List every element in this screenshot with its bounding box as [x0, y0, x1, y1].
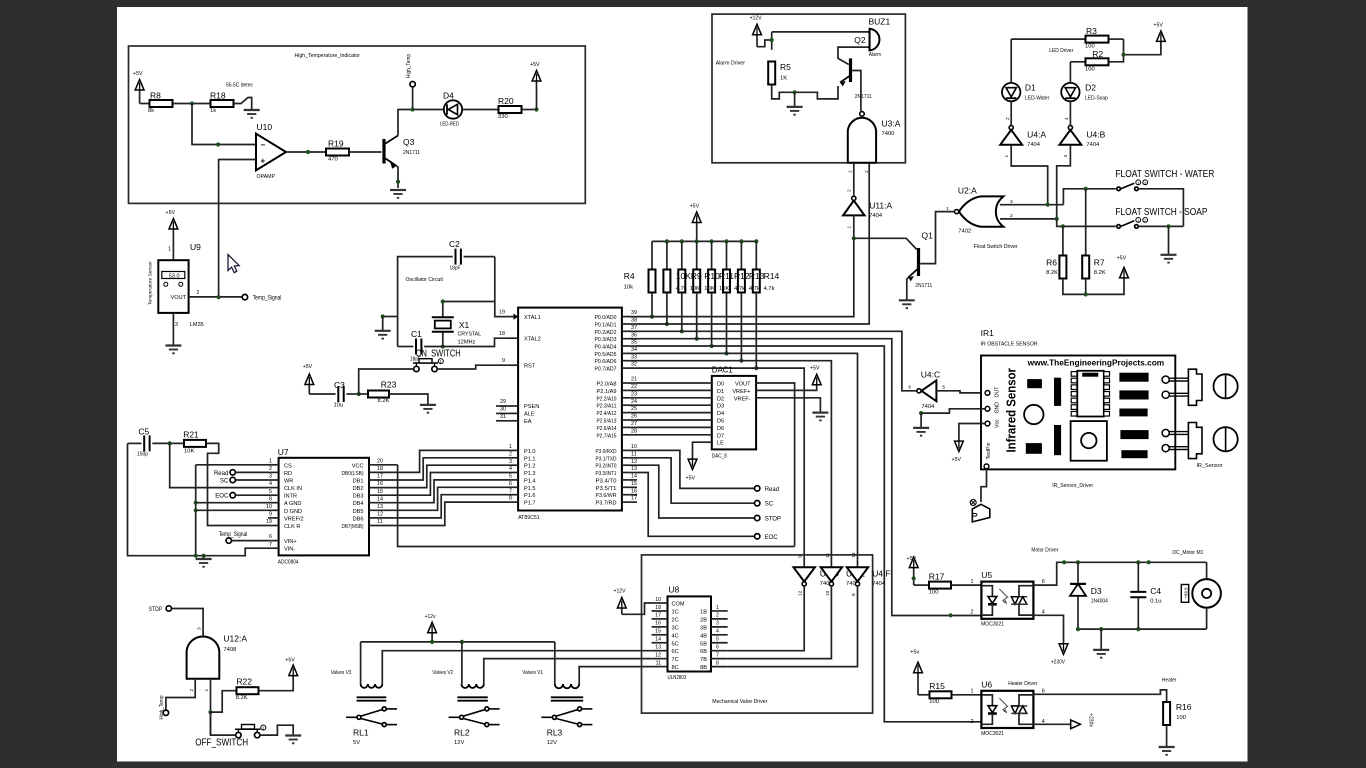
svg-text:R2: R2 — [1092, 49, 1103, 59]
svg-text:24: 24 — [631, 399, 637, 405]
svg-text:Vcc: Vcc — [995, 419, 1001, 428]
svg-text:12MHz: 12MHz — [458, 340, 476, 346]
transistor Q2 2N1711 — [849, 58, 852, 82]
wire — [346, 393, 358, 395]
wire P0.7 to U4:D input — [637, 368, 804, 567]
node soap-R6 — [1061, 224, 1065, 228]
svg-text:2N1711: 2N1711 — [855, 94, 872, 100]
svg-text:4: 4 — [269, 481, 272, 487]
pin 4 P1.3 — [508, 472, 518, 474]
pin 10 P3.0/RXD — [622, 449, 637, 451]
wire U3:A input 1 to U11:A output — [853, 163, 855, 196]
wire — [918, 694, 930, 696]
ground (Q3) — [390, 189, 406, 191]
svg-text:+12V: +12V — [750, 16, 762, 22]
svg-text:P0.6/AD6: P0.6/AD6 — [595, 359, 617, 365]
subcircuit box Mechanical Valve Driver — [642, 555, 873, 713]
pin 17 DB1 — [369, 479, 398, 481]
svg-text:16: 16 — [377, 481, 383, 487]
pin GND — [985, 406, 990, 411]
node bottom rail D3 — [1076, 627, 1080, 631]
pin 14 DB4 — [369, 502, 398, 504]
resistor R14 4.7k (pull-up column 7) — [754, 239, 758, 243]
svg-text:D5: D5 — [717, 419, 724, 425]
svg-text:2: 2 — [847, 189, 853, 192]
svg-text:8.2K: 8.2K — [378, 398, 390, 404]
svg-text:4.7k: 4.7k — [749, 286, 760, 292]
svg-text:−: − — [261, 141, 266, 150]
mouse cursor — [228, 255, 239, 273]
svg-text:VOUT: VOUT — [735, 382, 751, 388]
svg-text:RD: RD — [284, 471, 292, 477]
power +5V (R22) — [289, 665, 298, 676]
wire R16 to ground — [1166, 725, 1168, 747]
svg-text:7400: 7400 — [882, 131, 895, 137]
svg-text:1B: 1B — [700, 609, 707, 615]
svg-text:P0.5/AD5: P0.5/AD5 — [595, 352, 617, 358]
svg-text:8k: 8k — [148, 108, 154, 114]
svg-text:Mechanical Valve Driver: Mechanical Valve Driver — [712, 699, 767, 705]
node bottom rail C4 — [1136, 627, 1140, 631]
svg-text:0: 0 — [971, 512, 980, 517]
pin 2 2B — [711, 618, 728, 620]
svg-text:Read: Read — [214, 471, 228, 477]
pin 17 P3.7/RD — [622, 501, 637, 503]
svg-text:Valves V3: Valves V3 — [331, 670, 352, 676]
svg-text:Q3: Q3 — [403, 137, 415, 147]
power +5V (LE, arrow down) — [688, 459, 697, 470]
svg-text:P3.7/RD: P3.7/RD — [596, 501, 617, 507]
svg-text:P3.1/TXD: P3.1/TXD — [596, 456, 617, 462]
svg-text:15: 15 — [631, 481, 637, 487]
svg-text:+5V: +5V — [166, 210, 176, 216]
svg-text:P2.7/A15: P2.7/A15 — [597, 433, 617, 439]
resistor R12 4.7k (pull-up column 5) — [724, 239, 728, 243]
wire DAC1 VOUT down to U7 VCC rail — [756, 383, 795, 547]
svg-text:+5V: +5V — [1153, 23, 1163, 29]
svg-text:2C: 2C — [672, 617, 679, 623]
svg-text:U11:A: U11:A — [869, 201, 892, 211]
svg-text:37: 37 — [631, 325, 637, 331]
svg-text:Float Switch Driver: Float Switch Driver — [974, 244, 1018, 250]
wire P3.2 to STOP — [637, 465, 755, 518]
optocoupler U6 MOC3021 — [981, 691, 1033, 728]
svg-text:1: 1 — [848, 170, 854, 173]
svg-text:C1: C1 — [411, 329, 422, 339]
wire water rail left — [1063, 189, 1115, 205]
wire STOP to U12:A output — [172, 609, 204, 636]
svg-text:8: 8 — [269, 496, 272, 502]
svg-text:4: 4 — [1042, 609, 1045, 615]
wire R22 to +5V — [259, 676, 294, 691]
node valve rail V2 — [460, 640, 464, 644]
svg-text:P1.7: P1.7 — [524, 501, 536, 507]
svg-text:P2.5/A13: P2.5/A13 — [597, 419, 617, 425]
SMD strip 2 — [1055, 426, 1061, 455]
svg-text:4.7k: 4.7k — [734, 286, 745, 292]
resistor R9 10K (pull-up column 2) — [680, 239, 684, 243]
svg-text:RL2: RL2 — [454, 728, 470, 738]
resistor R2 100 — [1070, 61, 1085, 63]
wire +12V to R5 top — [757, 40, 772, 47]
svg-text:10: 10 — [825, 590, 831, 596]
power +5V (LED driver) — [1157, 31, 1166, 42]
svg-text:Oscillator Circuit: Oscillator Circuit — [406, 277, 444, 283]
node motor rail 2 — [1147, 560, 1151, 564]
svg-text:7404: 7404 — [869, 213, 883, 219]
wire U9 pin3 to ground — [172, 313, 174, 346]
svg-text:A GND: A GND — [284, 501, 301, 507]
pin 5 INTR — [268, 494, 279, 496]
wire U12:A input1 to OFF_SWITCH node — [210, 679, 212, 735]
wire U4:E output to U8 7B — [728, 586, 832, 659]
node reset RC — [357, 392, 361, 396]
node motor rail 1 — [1062, 560, 1066, 564]
pin 4 4B — [711, 634, 728, 636]
svg-text:1C: 1C — [672, 609, 679, 615]
node valve rail arrow — [430, 640, 434, 644]
wire P0.6 to U4:E input — [637, 361, 831, 568]
svg-text:DB5: DB5 — [353, 509, 364, 515]
svg-text:7B: 7B — [700, 657, 707, 663]
svg-text:OPAMP: OPAMP — [257, 174, 276, 180]
svg-text:+230v: +230v — [1088, 713, 1094, 727]
svg-text:1: 1 — [971, 689, 974, 695]
wire P2.1 to DAC1 D1 — [637, 389, 712, 391]
wire Vcc to +5V arrow down — [959, 424, 985, 442]
svg-text:P1.4: P1.4 — [524, 478, 536, 484]
svg-text:VIN-: VIN- — [284, 547, 295, 553]
optocoupler U5 MOC3021 — [981, 582, 1033, 619]
resistor R3 100 — [1011, 38, 1085, 40]
wire U4:A input to float-water net — [1011, 145, 1047, 205]
svg-text:X1: X1 — [459, 320, 470, 330]
wire water rail right — [1139, 189, 1184, 227]
resistor R20 — [499, 106, 522, 113]
pin 7 P1.6 — [508, 494, 518, 496]
svg-text:5B: 5B — [700, 641, 707, 647]
svg-text:R3: R3 — [1086, 26, 1097, 36]
svg-text:8.2K: 8.2K — [236, 695, 248, 701]
svg-text:22: 22 — [631, 384, 637, 390]
svg-text:+5V: +5V — [303, 364, 313, 370]
node R8-R18 — [190, 101, 194, 105]
svg-text:LM35: LM35 — [190, 322, 204, 328]
svg-text:VCC: VCC — [352, 463, 364, 469]
trimmer circle — [1024, 405, 1043, 424]
pin 28 P2.7/A15 — [622, 434, 637, 436]
ground (oscillator) — [382, 317, 384, 331]
ground (alarm) — [794, 92, 796, 107]
svg-text:U4:F: U4:F — [872, 569, 890, 579]
wire P3.0 to Read — [637, 450, 755, 488]
node IR ground — [919, 411, 923, 415]
SMD pad right 2 — [1120, 391, 1148, 399]
svg-text:7408: 7408 — [223, 647, 236, 653]
terminal EOC (U7) — [230, 493, 235, 498]
pin 10 COM — [652, 602, 668, 604]
driver U8 ULN2803 — [668, 596, 712, 671]
svg-text:+: + — [261, 156, 266, 165]
svg-text:Q1: Q1 — [922, 231, 934, 241]
svg-text:1: 1 — [269, 458, 272, 464]
svg-text:R5: R5 — [780, 62, 791, 72]
svg-text:VIN+: VIN+ — [284, 539, 297, 545]
pin 21 P2.0/A8 — [622, 382, 637, 384]
node water-R7 — [1084, 187, 1088, 191]
svg-text:17: 17 — [377, 474, 383, 480]
terminal STOP (MCU) — [755, 515, 760, 520]
ground (U9) — [165, 344, 181, 346]
svg-text:14: 14 — [631, 474, 637, 480]
wire D2 to U4:B — [1069, 101, 1071, 125]
pin 13 DB5 — [369, 509, 398, 511]
node motor rail C4 — [1136, 560, 1140, 564]
svg-text:LED-RED: LED-RED — [440, 122, 459, 128]
wire R6/R7 bottom to +5V — [1063, 278, 1124, 295]
svg-text:C4: C4 — [1150, 586, 1161, 596]
wire P0.2 to U4:C output — [637, 331, 916, 391]
relay RL1 5V — [346, 716, 356, 718]
svg-text:10u: 10u — [334, 403, 344, 409]
node motor rail D3 — [1076, 560, 1080, 564]
svg-text:33: 33 — [631, 354, 637, 360]
svg-text:R12: R12 — [734, 271, 750, 281]
pin 2 RD — [268, 471, 279, 473]
resistor R8 — [150, 100, 173, 107]
wire U7 VCC to VOUT rail — [398, 465, 795, 547]
svg-text:+5V: +5V — [952, 457, 962, 463]
svg-text:P3.4/T0: P3.4/T0 — [596, 478, 617, 484]
svg-text:R11: R11 — [719, 271, 734, 281]
svg-text:D2: D2 — [1085, 83, 1096, 93]
pin 5 5B — [711, 642, 728, 644]
svg-text:19: 19 — [499, 310, 505, 316]
svg-text:P2.2/A10: P2.2/A10 — [597, 396, 617, 402]
svg-text:8.2K: 8.2K — [1094, 270, 1106, 276]
svg-text:Temperature Sensor: Temperature Sensor — [148, 261, 154, 305]
resistor R15 100 — [930, 691, 952, 698]
svg-text:OUT: OUT — [995, 386, 1001, 398]
ground (motor) — [1100, 629, 1102, 650]
svg-text:8: 8 — [716, 660, 719, 666]
pin 6 6B — [711, 650, 728, 652]
wire DB1 to P1.1 — [398, 458, 508, 480]
svg-text:10K: 10K — [704, 286, 714, 292]
wire to Q1 collector — [854, 238, 917, 249]
pin 38 P0.1/AD1 — [622, 323, 637, 325]
svg-text:DB6: DB6 — [353, 516, 364, 522]
svg-text:P0.3/AD3: P0.3/AD3 — [595, 337, 617, 343]
svg-text:R14: R14 — [764, 271, 780, 281]
node float water U4:A tap — [1046, 203, 1050, 207]
svg-text:100: 100 — [929, 699, 939, 705]
svg-text:R23: R23 — [381, 380, 397, 390]
pin 12 7C — [652, 658, 668, 660]
wire — [173, 103, 212, 105]
svg-text:VREF+: VREF+ — [732, 389, 750, 395]
svg-text:D7: D7 — [717, 433, 724, 439]
terminal Read (U7) — [230, 470, 235, 475]
node opamp output — [306, 150, 310, 154]
pin 7 7B — [711, 658, 728, 660]
svg-text:13: 13 — [655, 645, 661, 651]
pin 12 P3.2/INT0 — [622, 464, 637, 466]
svg-text:7: 7 — [269, 542, 272, 548]
svg-text:www.TheEngineeringProjects.com: www.TheEngineeringProjects.com — [1027, 359, 1165, 368]
svg-text:D4: D4 — [443, 91, 454, 101]
wire — [522, 109, 537, 111]
SMD pad right 1 — [1120, 373, 1148, 381]
wire — [914, 584, 929, 586]
svg-text:14: 14 — [655, 637, 661, 643]
wire — [232, 540, 268, 542]
svg-text:BUZ1: BUZ1 — [869, 17, 891, 27]
subcircuit box Alarm Driver — [712, 14, 905, 163]
svg-text:55.5C detec: 55.5C detec — [226, 83, 253, 89]
wire DB2 to P1.2 — [398, 465, 508, 487]
pin 16 3C — [652, 626, 668, 628]
wire Q1 base to U2:A output — [920, 212, 954, 264]
node LED driver +5V — [1121, 53, 1125, 57]
wire OFF_SWITCH to ground — [260, 725, 293, 735]
logic probe 0 (TestPin) — [970, 500, 976, 506]
wire to ON_SWITCH — [359, 369, 414, 394]
svg-text:R7: R7 — [1094, 258, 1105, 268]
svg-text:COM: COM — [672, 602, 685, 608]
crystal X1 12MHz — [432, 316, 454, 318]
svg-text:DB2: DB2 — [353, 486, 364, 492]
svg-text:P0.4/AD4: P0.4/AD4 — [595, 345, 617, 351]
svg-text:+5V: +5V — [530, 62, 540, 68]
svg-text:CRYSTAL: CRYSTAL — [458, 332, 482, 338]
svg-text:R10: R10 — [704, 271, 720, 281]
wire DB0 to P1.0 — [398, 450, 508, 472]
svg-text:1N4004: 1N4004 — [1091, 599, 1109, 605]
svg-text:GND: GND — [995, 402, 1001, 414]
pin 2 P1.1 — [508, 457, 518, 459]
svg-text:DAC1: DAC1 — [712, 365, 733, 375]
node ground rail — [194, 554, 198, 558]
svg-text:29: 29 — [500, 399, 506, 405]
svg-text:17: 17 — [631, 496, 637, 502]
svg-text:P2.4/A12: P2.4/A12 — [597, 411, 617, 417]
svg-text:RST: RST — [524, 363, 536, 369]
node crystal top — [441, 299, 445, 303]
pin 26 P2.5/A13 — [622, 419, 637, 421]
wire — [236, 479, 269, 481]
wire P0.0 to U3:A input 1 via U11:A — [637, 238, 854, 316]
svg-text:1: 1 — [716, 605, 719, 611]
svg-text:LED Driver: LED Driver — [1049, 48, 1073, 54]
node U5 pin2 — [949, 613, 953, 617]
SMD pad right 4 — [1121, 431, 1148, 439]
wire D1 to U4:A — [1010, 101, 1012, 125]
pin 32 P0.7/AD7 — [622, 367, 637, 369]
svg-text:U9: U9 — [190, 242, 201, 252]
wire U6 pin4 to +230v arrow right — [1033, 723, 1074, 725]
svg-text:330: 330 — [498, 114, 508, 120]
svg-text:10K: 10K — [690, 286, 700, 292]
svg-text:DB0(LSB): DB0(LSB) — [342, 471, 364, 477]
svg-text:XTAL2: XTAL2 — [524, 336, 541, 342]
svg-text:STOP: STOP — [765, 517, 781, 523]
svg-text:Motor Driver: Motor Driver — [1031, 548, 1058, 554]
svg-text:High_Temp: High_Temp — [159, 696, 165, 720]
svg-text:26: 26 — [631, 414, 637, 420]
svg-text:1k: 1k — [210, 108, 216, 114]
ground (float switches) — [1168, 226, 1170, 254]
ground (R23) — [420, 404, 436, 406]
svg-text:13: 13 — [631, 466, 637, 472]
pin 13 6C — [652, 650, 668, 652]
svg-text:CS: CS — [284, 463, 292, 469]
wire oscillator bottom rail — [398, 346, 414, 348]
pin 15 P3.5/T1 — [622, 486, 637, 488]
svg-text:35: 35 — [631, 340, 637, 346]
wire crystal top node — [443, 302, 495, 317]
svg-text:39: 39 — [631, 310, 637, 316]
capacitor C2 18pF — [455, 249, 457, 265]
svg-text:R21: R21 — [183, 430, 199, 440]
inverter U11:A 7404 — [843, 201, 864, 216]
svg-text:7404: 7404 — [1027, 142, 1041, 148]
svg-text:5: 5 — [269, 489, 272, 495]
pin 4 CLK IN — [268, 487, 279, 489]
SMD pad (IR1 bottom-left) — [1026, 444, 1041, 454]
svg-text:31: 31 — [500, 414, 506, 420]
node Q3 emitter — [396, 180, 400, 184]
power +230v (arrow right) — [1071, 720, 1081, 729]
pin 19 CLK R — [268, 525, 279, 527]
wire V1 coil to U8 8C — [579, 667, 651, 684]
svg-text:4: 4 — [509, 466, 512, 472]
svg-text:53.0: 53.0 — [169, 274, 180, 280]
svg-text:XTAL1: XTAL1 — [524, 315, 541, 321]
pin 15 DB3 — [369, 494, 398, 496]
svg-text:3: 3 — [197, 627, 203, 630]
wire P0.4 to U6 pin 2 — [637, 346, 981, 722]
pin 14 P3.4/T0 — [622, 479, 637, 481]
pin 18 DB0(LSB) — [369, 471, 398, 473]
adc U7 ADC0804 — [279, 458, 369, 556]
switch blade soap — [1121, 221, 1135, 227]
resistor R13 4.7k (pull-up column 6) — [739, 239, 743, 243]
wire GND pin to ground — [921, 409, 985, 413]
inverter U4:C 7404 — [921, 380, 936, 401]
wire soap rail right — [1139, 225, 1184, 227]
wire node to OFF_SWITCH — [211, 712, 236, 735]
svg-text:P3.5/T1: P3.5/T1 — [596, 486, 617, 492]
wire U4:C input to IR1 OUT — [936, 391, 984, 393]
temperature sensor U9 LM35 — [158, 260, 188, 313]
SMD strip 1 — [1055, 378, 1061, 405]
svg-text:12V: 12V — [454, 740, 464, 746]
svg-text:13: 13 — [377, 504, 383, 510]
svg-text:11: 11 — [377, 519, 383, 525]
svg-text:ON_SWITCH: ON_SWITCH — [416, 349, 461, 360]
svg-text:IR_Sensor_Driver: IR_Sensor_Driver — [1052, 483, 1093, 489]
svg-text:2N1711: 2N1711 — [403, 150, 420, 156]
resistor R22 8.2K — [237, 687, 259, 694]
svg-text:+5V: +5V — [285, 658, 295, 664]
wire U9 VOUT to Temp_Signal — [189, 296, 243, 298]
svg-text:OFF_SWITCH: OFF_SWITCH — [195, 737, 248, 749]
svg-text:3: 3 — [509, 459, 512, 465]
pin 8 A GND — [268, 502, 279, 504]
svg-text:P1.1: P1.1 — [524, 456, 536, 462]
wire P0.5 to U4:F input — [637, 353, 858, 567]
